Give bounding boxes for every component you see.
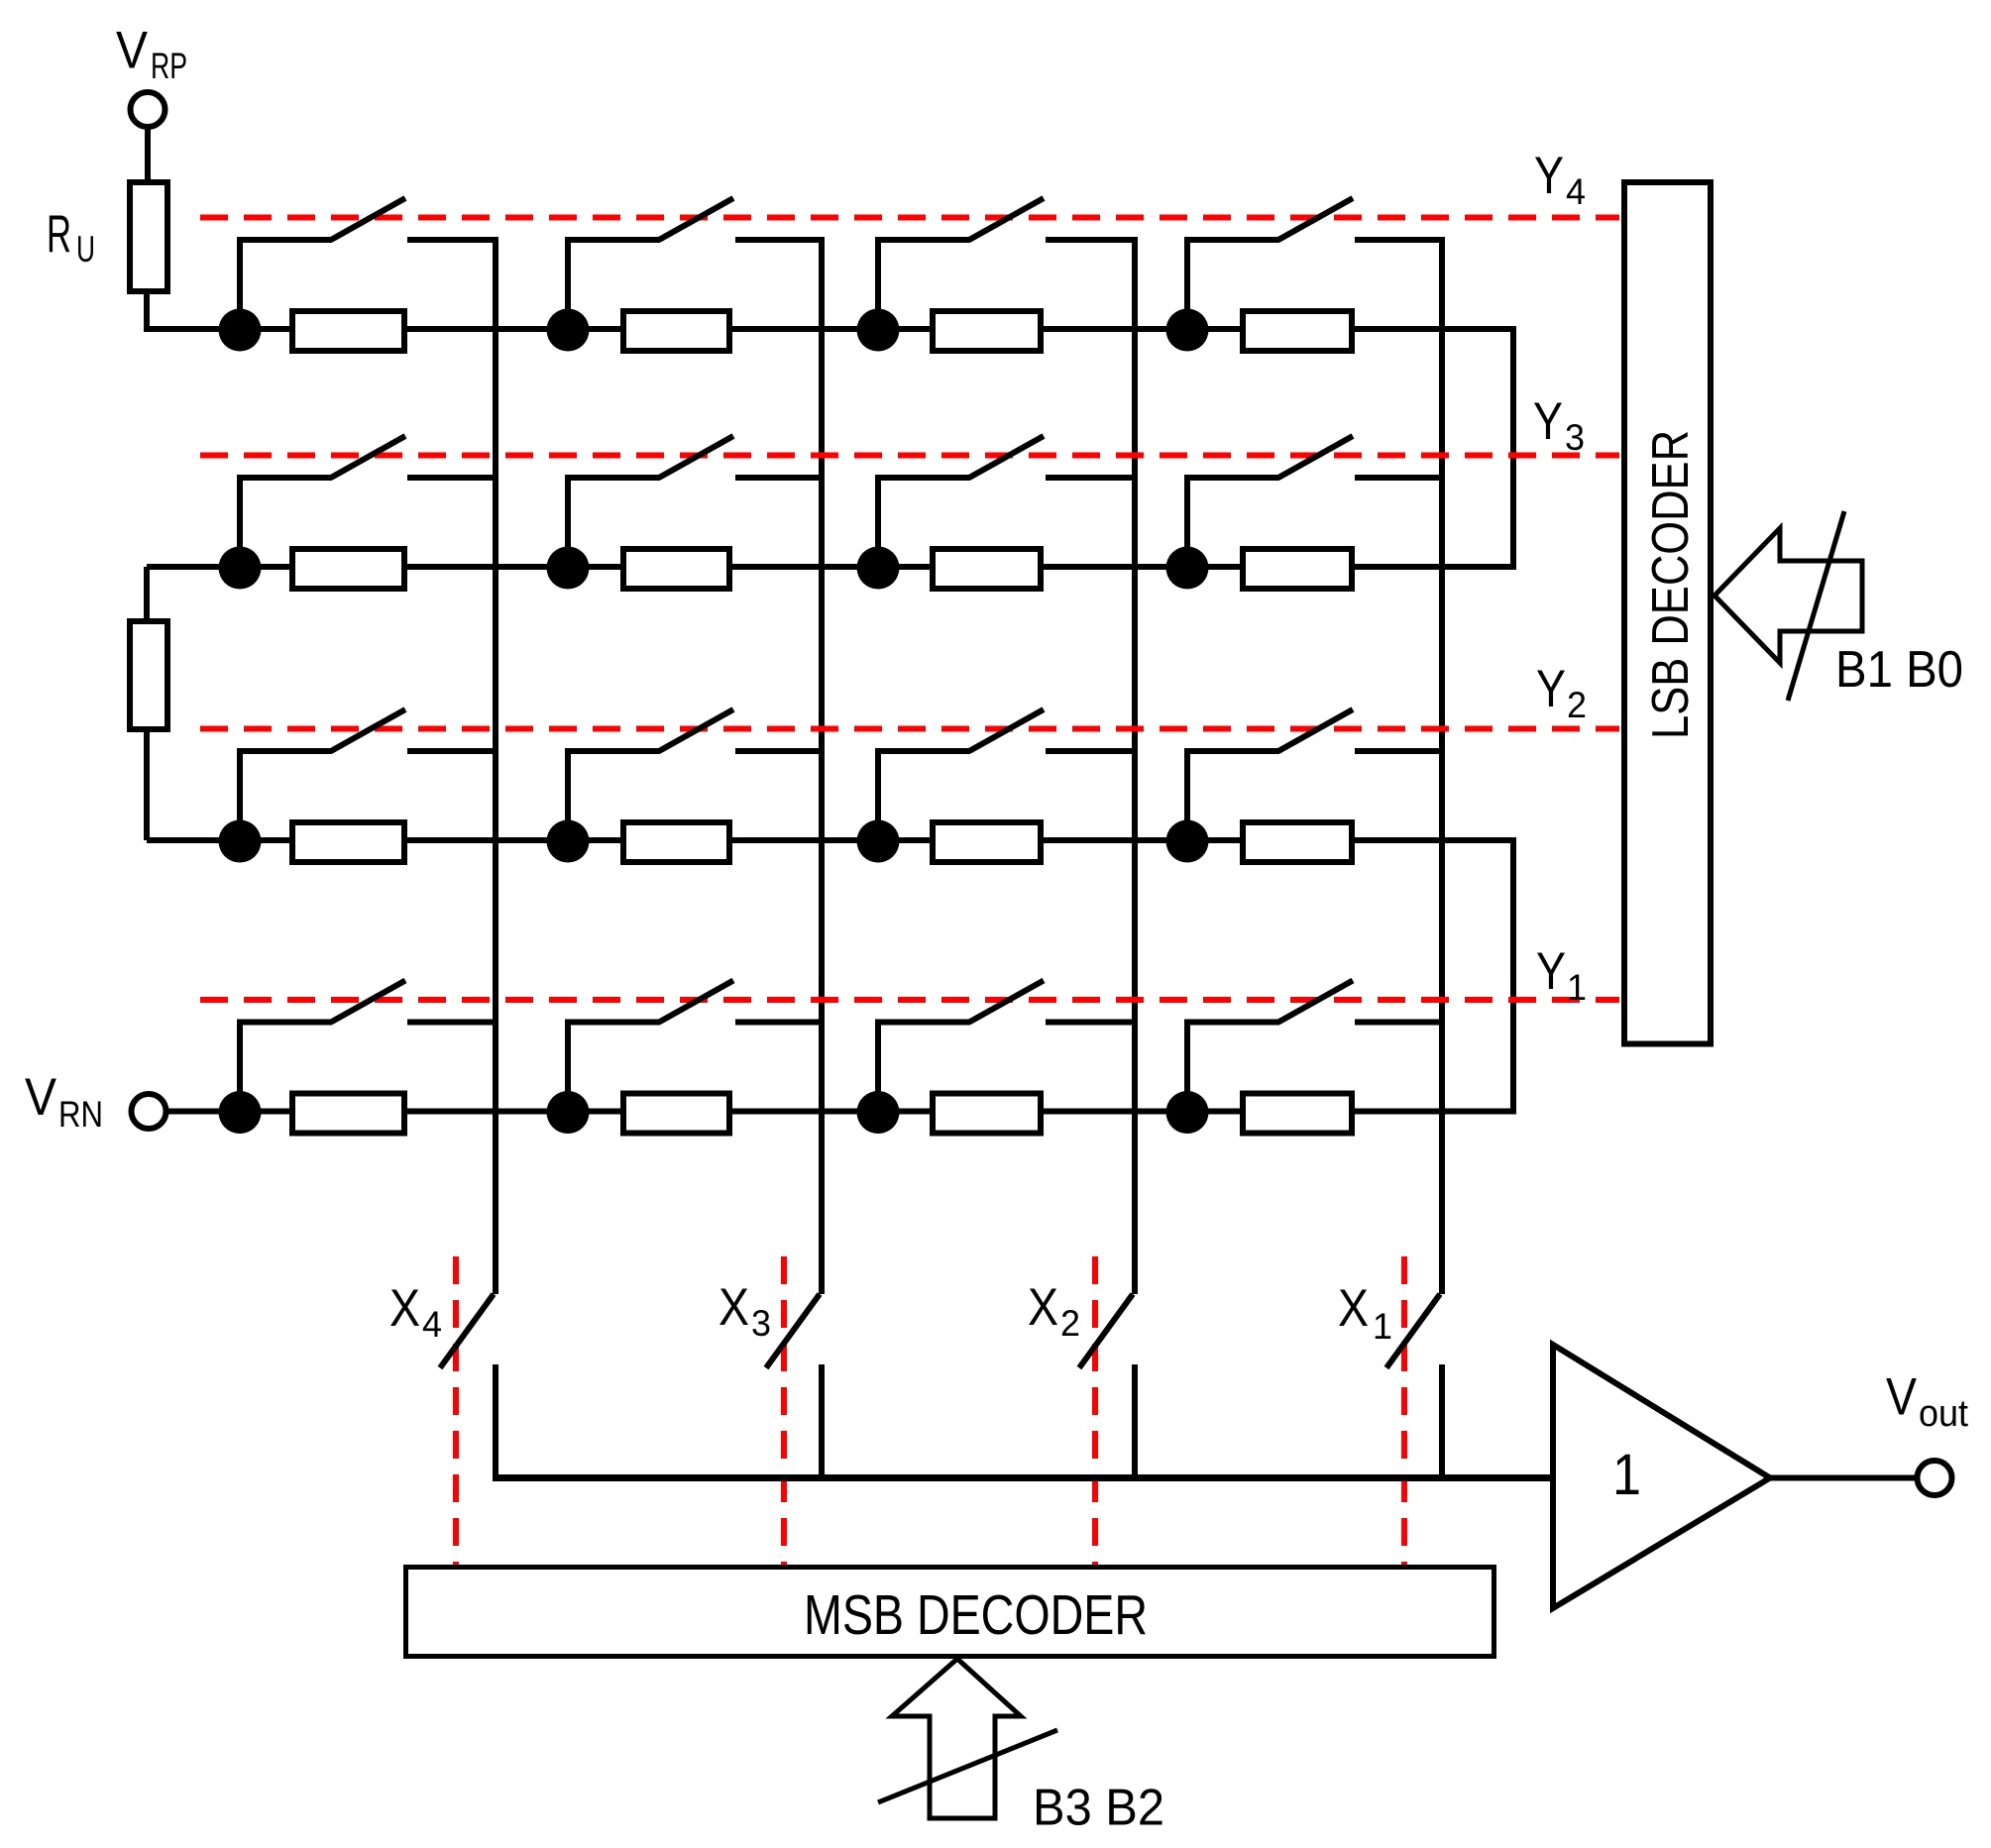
switch S21 left contact — [237, 475, 332, 481]
wire riser node row3 col2 — [565, 748, 571, 840]
switch S23 left contact — [875, 475, 970, 481]
switch S11 blade — [331, 198, 405, 240]
wire column X2 — [1132, 240, 1138, 1294]
switch S22 left contact — [565, 475, 660, 481]
wire riser node row4 col3 — [875, 1020, 881, 1112]
switch S12 left contact — [565, 237, 660, 243]
switch S14 left contact — [1184, 237, 1279, 243]
svg-text:4: 4 — [1566, 171, 1586, 212]
line Y2 select (dashed) — [200, 726, 1619, 732]
switch X1 lower contact — [1439, 1364, 1445, 1478]
switch S33 blade — [969, 709, 1044, 751]
svg-text:V: V — [116, 22, 149, 80]
node row2 col2 — [547, 547, 590, 590]
line X3 select (dashed) — [781, 1256, 787, 1565]
node row1 col1 — [219, 309, 262, 352]
switch S32 right contact — [735, 748, 825, 754]
svg-text:out: out — [1919, 1393, 1968, 1435]
resistor row2 col4 — [1243, 549, 1352, 589]
svg-text:Y: Y — [1536, 942, 1566, 1001]
resistor row1 col3 — [933, 311, 1041, 351]
node row3 col1 — [219, 820, 262, 863]
wire row 4 — [166, 1109, 1513, 1115]
wire riser node row2 col1 — [237, 475, 243, 567]
wire riser node row1 col1 — [237, 237, 243, 329]
node row3 col3 — [857, 820, 900, 863]
svg-text:3: 3 — [1565, 417, 1585, 458]
terminal VRN — [132, 1094, 166, 1129]
MSB DECODER box — [406, 1568, 1494, 1657]
svg-text:3: 3 — [751, 1303, 771, 1344]
resistor row2 col3 — [933, 549, 1041, 589]
switch S13 blade — [969, 198, 1044, 240]
wire output bus — [493, 1474, 1556, 1481]
switch S42 blade — [659, 981, 733, 1023]
wire riser node row3 col4 — [1184, 748, 1190, 840]
switch S34 blade — [1278, 709, 1353, 751]
switch S31 left contact — [237, 748, 332, 754]
switch X4 lower contact — [493, 1364, 498, 1478]
switch X3 blade — [766, 1294, 820, 1368]
resistor row1 col2 — [623, 311, 729, 351]
svg-text:1: 1 — [1373, 1306, 1392, 1347]
wire riser node row3 col3 — [875, 748, 881, 840]
switch S21 blade — [331, 436, 405, 478]
wire riser node row2 col3 — [875, 475, 881, 567]
switch S41 left contact — [237, 1020, 332, 1026]
wire riser node row3 col1 — [237, 748, 243, 840]
resistor row1 col4 — [1243, 311, 1352, 351]
svg-text:B3 B2: B3 B2 — [1033, 1780, 1164, 1837]
switch S32 left contact — [565, 748, 660, 754]
switch S31 right contact — [407, 748, 498, 754]
bus slash B1B0 — [1788, 511, 1844, 701]
resistor RU — [130, 182, 167, 291]
switch S14 right contact — [1355, 237, 1445, 243]
wire RU to row 1 — [147, 294, 243, 329]
svg-text:2: 2 — [1567, 685, 1587, 725]
resistor row3 col4 — [1243, 822, 1352, 862]
resistor row4 col2 — [623, 1094, 729, 1134]
node row4 col4 — [1166, 1091, 1209, 1134]
switch S43 left contact — [875, 1020, 970, 1026]
wire riser node row1 col2 — [565, 237, 571, 329]
wire riser node row1 col4 — [1184, 237, 1190, 329]
node row2 col4 — [1166, 547, 1209, 590]
resistor row2 col1 — [292, 549, 404, 589]
switch S41 blade — [331, 981, 405, 1023]
resistor row4 col1 — [292, 1094, 404, 1134]
svg-text:Y: Y — [1533, 392, 1563, 451]
line X1 select (dashed) — [1401, 1256, 1407, 1565]
wire riser node row2 col4 — [1184, 475, 1190, 567]
wire riser node row4 col1 — [237, 1020, 243, 1112]
switch X3 lower contact — [819, 1364, 825, 1478]
wire amp output — [1770, 1475, 1917, 1481]
switch S13 left contact — [875, 237, 970, 243]
resistor row2 col2 — [623, 549, 729, 589]
switch S31 blade — [331, 709, 405, 751]
wire riser node row2 col2 — [565, 475, 571, 567]
switch S21 right contact — [407, 475, 498, 481]
svg-text:V: V — [1886, 1368, 1918, 1427]
switch S24 left contact — [1184, 475, 1279, 481]
svg-text:LSB DECODER: LSB DECODER — [1642, 430, 1700, 739]
wire row 2 — [147, 564, 1513, 570]
svg-text:RP: RP — [151, 46, 187, 86]
node row3 col2 — [547, 820, 590, 863]
switch S43 blade — [969, 981, 1044, 1023]
line Y3 select (dashed) — [200, 453, 1619, 459]
svg-text:B1 B0: B1 B0 — [1835, 641, 1963, 699]
terminal VRP — [131, 92, 166, 127]
wire column X3 — [819, 240, 825, 1294]
switch S12 blade — [659, 198, 733, 240]
switch X4 blade — [440, 1294, 494, 1368]
switch S11 right contact — [407, 237, 498, 243]
svg-text:V: V — [25, 1068, 57, 1127]
wire RL to row 3 — [144, 732, 150, 840]
node row2 col1 — [219, 547, 262, 590]
wire column X1 — [1439, 240, 1445, 1294]
svg-text:X: X — [719, 1278, 749, 1337]
wire row 2 to RL — [144, 567, 150, 621]
node row3 col4 — [1166, 820, 1209, 863]
terminal Vout circle — [1918, 1461, 1952, 1495]
resistor row3 col1 — [292, 822, 404, 862]
line X2 select (dashed) — [1092, 1256, 1098, 1565]
svg-text:RN: RN — [58, 1094, 103, 1135]
node row4 col2 — [547, 1091, 590, 1134]
switch S42 left contact — [565, 1020, 660, 1026]
wire row 1 to row 2 right — [1510, 326, 1516, 570]
resistor row1 col1 — [292, 311, 404, 351]
switch S42 right contact — [735, 1020, 825, 1026]
switch S34 right contact — [1355, 748, 1445, 754]
wire riser node row4 col2 — [565, 1020, 571, 1112]
switch S34 left contact — [1184, 748, 1279, 754]
wire row 3 to row 4 right — [1510, 837, 1516, 1115]
node row4 col3 — [857, 1091, 900, 1134]
resistor row3 col2 — [623, 822, 729, 862]
resistor row3 col3 — [933, 822, 1041, 862]
svg-text:Y: Y — [1536, 660, 1566, 718]
wire column X4 — [493, 240, 498, 1294]
arrow B3B2 into MSB decoder — [892, 1659, 1021, 1818]
switch S14 blade — [1278, 198, 1353, 240]
resistor RL — [130, 621, 167, 729]
switch S23 right contact — [1046, 475, 1138, 481]
svg-text:1: 1 — [1567, 967, 1587, 1008]
switch S22 right contact — [735, 475, 825, 481]
wire VRP to RU — [145, 127, 151, 182]
resistor row4 col4 — [1243, 1094, 1352, 1134]
wire riser node row1 col3 — [875, 237, 881, 329]
line X4 select (dashed) — [453, 1256, 459, 1565]
switch S41 right contact — [407, 1020, 498, 1026]
resistor row4 col3 — [933, 1094, 1041, 1134]
wire row 3 — [147, 837, 1513, 843]
svg-text:4: 4 — [422, 1304, 442, 1345]
switch S44 blade — [1278, 981, 1353, 1023]
op-amp buffer U1 — [1553, 1345, 1770, 1608]
node row1 col4 — [1166, 309, 1209, 352]
switch S33 left contact — [875, 748, 970, 754]
switch S11 left contact — [237, 237, 332, 243]
svg-text:X: X — [389, 1279, 420, 1338]
switch X1 blade — [1386, 1294, 1440, 1368]
wire row 1 — [147, 326, 1513, 332]
arrow B1B0 into LSB decoder — [1714, 528, 1862, 663]
switch S32 blade — [659, 709, 733, 751]
wire riser node row4 col4 — [1184, 1020, 1190, 1112]
svg-text:MSB DECODER: MSB DECODER — [804, 1583, 1148, 1647]
switch S44 left contact — [1184, 1020, 1279, 1026]
switch S13 right contact — [1046, 237, 1138, 243]
LSB DECODER box — [1624, 182, 1711, 1044]
svg-text:X: X — [1338, 1279, 1369, 1338]
switch S33 right contact — [1046, 748, 1138, 754]
switch S24 right contact — [1355, 475, 1445, 481]
switch S12 right contact — [735, 237, 825, 243]
node row1 col3 — [857, 309, 900, 352]
svg-text:R: R — [47, 205, 71, 264]
svg-text:X: X — [1028, 1278, 1058, 1337]
svg-text:1: 1 — [1612, 1443, 1641, 1507]
switch X2 blade — [1079, 1294, 1133, 1368]
svg-text:2: 2 — [1060, 1303, 1080, 1344]
switch S23 blade — [969, 436, 1044, 478]
svg-text:Y: Y — [1534, 147, 1564, 205]
node row1 col2 — [547, 309, 590, 352]
switch S22 blade — [659, 436, 733, 478]
switch S44 right contact — [1355, 1020, 1445, 1026]
bus slash B3B2 — [878, 1730, 1057, 1802]
line Y1 select (dashed) — [200, 997, 1619, 1003]
svg-text:U: U — [76, 229, 95, 270]
node row4 col1 — [219, 1091, 262, 1134]
switch S43 right contact — [1046, 1020, 1138, 1026]
line Y4 select (dashed) — [200, 215, 1619, 221]
switch S24 blade — [1278, 436, 1353, 478]
switch X2 lower contact — [1132, 1364, 1138, 1478]
node row2 col3 — [857, 547, 900, 590]
